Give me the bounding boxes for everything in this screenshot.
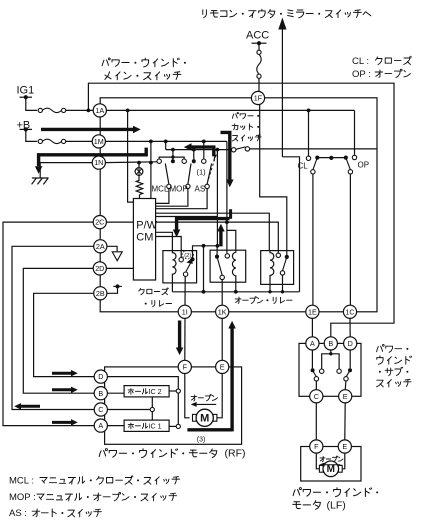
flow arrow 1K up from motor	[230, 329, 233, 432]
switch AS lever	[207, 164, 212, 185]
2B terminal node	[113, 285, 122, 287]
wire 1M internal bus	[105, 140, 227, 142]
label power cut switch (3 lines)	[232, 114, 233, 118]
svg-text:IC 2: IC 2	[149, 387, 162, 396]
wire CM to close relay contact	[156, 237, 182, 258]
pin D motor RF	[94, 370, 107, 383]
pin 1C	[343, 305, 356, 318]
AS mechanical link (1) dashed	[209, 153, 217, 180]
pin A motor RF	[94, 419, 107, 432]
junction 1M to AS contact	[202, 140, 206, 144]
svg-text:F: F	[183, 363, 188, 372]
junction to CL contact	[307, 109, 311, 113]
branch to relay2 coil	[227, 230, 236, 250]
svg-text:1M: 1M	[94, 137, 104, 146]
svg-text:E: E	[220, 363, 225, 372]
svg-text:A: A	[98, 421, 103, 430]
power cut switch lever	[236, 147, 246, 149]
svg-text:2C: 2C	[95, 218, 104, 227]
label open (LF motor)	[320, 457, 325, 459]
wire sub D to contact	[349, 350, 351, 368]
wire OP selector to 1C	[349, 174, 351, 305]
wire resistor to CM	[139, 195, 141, 199]
close relay coil	[172, 251, 176, 277]
wire fuse to 1M	[66, 140, 93, 142]
label power window motor LF line2	[294, 501, 300, 503]
relay2 fixed contact	[225, 254, 229, 258]
wire to illumination lamp	[138, 163, 140, 168]
flow arrow D row	[52, 372, 71, 375]
wire sub A to contact	[311, 350, 313, 368]
hall IC 2 box	[124, 386, 169, 397]
relay2 coil	[232, 250, 235, 278]
switch MCL common	[167, 184, 171, 188]
flow arrow C row (left)	[21, 405, 40, 408]
close relay common contact	[183, 272, 187, 276]
wire sub C to motor F	[315, 403, 317, 440]
motor LF	[319, 465, 323, 472]
switch MOP lever	[188, 164, 191, 185]
pin 1E	[306, 305, 319, 318]
sub B contacts	[320, 369, 324, 373]
wire CM to relay junction	[156, 216, 218, 218]
svg-text:1A: 1A	[95, 106, 104, 115]
label: power window main switch	[102, 60, 104, 66]
wire around box: IG1 to sub switch B	[88, 83, 394, 337]
junction 1A to CM	[126, 109, 130, 113]
svg-text:B: B	[98, 389, 103, 398]
page connector open arrow	[112, 252, 122, 261]
wire 1N to ground	[40, 163, 92, 178]
MOP moving contact tip	[192, 159, 196, 163]
close relay fixed contact	[179, 258, 183, 262]
pin C sub	[310, 390, 323, 403]
wire MOP common to CM	[156, 189, 188, 207]
wire 2C to motor C	[3, 222, 94, 426]
motor RF	[193, 414, 197, 421]
open relay box	[261, 251, 294, 285]
svg-text:CL :: CL :	[352, 56, 369, 67]
junction relay drive 2	[216, 244, 220, 248]
relay2 lever	[217, 257, 222, 276]
flow arrow 1I down to motor	[178, 321, 181, 348]
wire relay2 contact feed	[216, 246, 218, 257]
svg-text:C: C	[314, 392, 319, 401]
relay2 coil to bus	[235, 278, 237, 292]
sub switch left lever	[313, 371, 317, 377]
P/W CM control module box	[133, 199, 155, 281]
selector lower contact CL	[311, 170, 315, 174]
svg-text:ACC: ACC	[246, 30, 269, 42]
wire 1A-junction down to CM	[128, 110, 134, 202]
junction bus to relay feed	[216, 148, 220, 152]
pin 1I	[178, 305, 191, 318]
wire 1E to sub A	[311, 318, 313, 337]
IG1 terminal node	[20, 96, 33, 98]
svg-text:C: C	[98, 405, 103, 414]
flow arrow up from relay wire	[219, 232, 222, 247]
sub switch right common	[344, 377, 348, 381]
wire 2C to CM	[106, 221, 133, 223]
junction node IG1 branch	[87, 109, 91, 113]
pin A sub	[306, 337, 319, 350]
svg-text:(LF): (LF)	[327, 499, 346, 511]
power window motor LF box	[301, 447, 361, 482]
flow arrow left from cut switch	[192, 147, 214, 156]
fuse F-IG1	[38, 108, 42, 112]
wire mirror feed to relay bus	[282, 157, 299, 292]
svg-text:2A: 2A	[96, 242, 105, 251]
AS fixed contact	[202, 159, 206, 163]
svg-text:P/W: P/W	[136, 220, 157, 232]
wire close relay contact feed	[193, 246, 218, 260]
junction on 1N line	[149, 161, 153, 165]
pin 1F	[251, 91, 264, 104]
open relay fixed contact	[276, 253, 280, 257]
svg-text:B: B	[328, 339, 333, 348]
wire 1F to open relay	[260, 105, 287, 255]
svg-text:1I: 1I	[182, 307, 188, 316]
wire CM to close relay coil	[156, 232, 173, 250]
flow arrow B row	[52, 388, 71, 391]
label open relay	[235, 298, 241, 300]
MCL moving contact tip	[171, 159, 175, 163]
pin E sub	[339, 390, 352, 403]
svg-text:D: D	[98, 372, 103, 381]
wire power cut to right edge	[250, 148, 378, 150]
label close relay	[139, 288, 141, 291]
svg-text:AS :: AS :	[9, 508, 27, 519]
CL selector contact	[306, 156, 310, 160]
wire CM to open relay coil	[156, 213, 270, 250]
label open (RF motor)	[191, 396, 197, 398]
wire relay2 common to 1K	[221, 280, 223, 306]
switch MOP common	[186, 184, 190, 188]
wire CM to open relay contact	[156, 221, 227, 223]
svg-text:MCL: MCL	[152, 185, 169, 194]
junction relay contact feed	[225, 220, 229, 224]
wire 1N internal	[105, 161, 157, 164]
svg-text:F: F	[314, 442, 319, 451]
pin C motor RF	[94, 403, 107, 416]
wire common to E	[344, 381, 347, 390]
pin F motor RF	[178, 360, 191, 373]
ground symbol	[32, 177, 49, 179]
open relay coil to bus	[269, 278, 271, 292]
wire junction down to bus	[203, 246, 205, 292]
svg-text:1C: 1C	[345, 307, 354, 316]
svg-text:MOP: MOP	[170, 185, 188, 194]
contact bus wire	[166, 149, 232, 151]
power cut switch right contact	[245, 147, 249, 151]
wire bus down to MOP moving contact	[193, 150, 195, 161]
svg-text:OP :: OP :	[352, 69, 371, 80]
close relay lever	[186, 259, 193, 272]
MOP fixed contact	[182, 159, 186, 163]
sub D contact	[348, 368, 352, 372]
pin 1K	[216, 305, 229, 318]
junction relay drive	[202, 244, 206, 248]
power window sub switch box	[299, 343, 361, 396]
power cut switch left contact	[232, 148, 236, 152]
flow arrow to ground	[39, 148, 147, 167]
selector lever CL side	[313, 158, 317, 170]
wire 1A internal bus	[107, 109, 355, 111]
relay bus wire	[172, 291, 299, 293]
wire IG1 to fuse	[26, 97, 37, 110]
illumination lamp	[135, 168, 143, 176]
wire 1C to sub D	[349, 318, 351, 337]
label: to remote control outer mirror switch	[202, 10, 204, 15]
junction bus-MOP	[192, 148, 196, 152]
svg-text:(1): (1)	[197, 168, 207, 177]
pin E motor RF	[216, 360, 229, 373]
junction 1M to contact bus	[164, 140, 168, 144]
svg-text:E: E	[343, 392, 348, 401]
svg-text:(RF): (RF)	[225, 448, 246, 460]
pin 1N	[92, 156, 105, 169]
svg-text:MOP :: MOP :	[9, 492, 36, 503]
selector lever OP side	[346, 158, 351, 170]
selector lower contact OP	[348, 170, 352, 174]
pin B sub	[324, 337, 337, 350]
wire to OP contact	[354, 110, 356, 155]
open relay lever	[283, 257, 287, 271]
wire to CL contact	[308, 110, 310, 155]
pin E motor LF	[338, 440, 351, 453]
wire 2D to motor B	[23, 268, 94, 393]
svg-text:IC 1: IC 1	[149, 421, 162, 430]
pin B motor RF	[94, 387, 107, 400]
arrow open direction RF	[195, 403, 217, 405]
flow arrow down through cut switch	[221, 132, 230, 179]
svg-text:OP: OP	[358, 161, 370, 170]
wire sub E to motor E	[344, 403, 346, 440]
OP selector contact	[352, 155, 356, 159]
IC1 output junction	[176, 424, 180, 428]
wire sub B split	[330, 350, 332, 354]
pin F motor LF	[310, 440, 323, 453]
wire IC2 output	[169, 390, 176, 392]
flow arrow +B right	[41, 128, 133, 131]
wire 2A to page connector	[107, 246, 117, 251]
selector bar with pivots	[317, 157, 346, 159]
switch MCL lever	[165, 164, 169, 185]
label power window sub switch	[377, 347, 379, 352]
wire 2B to motor D	[34, 293, 95, 376]
hall IC 1 box	[124, 420, 169, 431]
wire +B to fuse	[26, 129, 37, 141]
wire 1M down to CM crossing 1N line	[150, 141, 152, 198]
junction 1M to CM feed	[149, 140, 153, 144]
wire fuse to 1A with junction	[66, 109, 94, 111]
+B terminal node	[20, 128, 33, 130]
wire 1K to E	[221, 318, 223, 360]
wire open relay common to bus	[282, 275, 284, 292]
svg-text:1N: 1N	[94, 158, 103, 167]
svg-text:CM: CM	[136, 232, 153, 244]
flow arrow into close relay	[229, 209, 232, 219]
pin 2C	[93, 216, 106, 229]
wire 1M corner down to close2 contact	[226, 141, 228, 253]
wire CL selector to 1E	[312, 174, 314, 305]
svg-text:(3): (3)	[197, 437, 206, 444]
wire 1M to AS contact	[203, 141, 205, 158]
svg-text:1E: 1E	[308, 307, 317, 316]
label power window motor RF	[99, 451, 101, 457]
wire IC1 output	[169, 425, 176, 427]
wire AS common to CM	[156, 189, 208, 209]
svg-text:IG1: IG1	[17, 85, 35, 97]
wire C to IC junction	[107, 409, 150, 411]
flow arrow A row	[52, 421, 71, 424]
bus junctions	[202, 290, 206, 294]
wire A to hall IC1	[107, 425, 124, 427]
close relay box	[163, 251, 197, 283]
annotation (2) dashed oval	[182, 250, 193, 258]
junction lamp feed	[137, 161, 141, 165]
svg-text:(2): (2)	[184, 253, 191, 259]
wire common to C	[315, 381, 317, 390]
wire 2B to terminal	[107, 288, 117, 293]
wire fuse to pin 1F	[258, 78, 260, 91]
sub A contact	[311, 368, 315, 372]
wire 1M to contact bus	[165, 141, 167, 149]
svg-text:M: M	[200, 412, 209, 424]
IC2 output junction	[176, 389, 180, 393]
wire bus down to MCL moving contact	[172, 150, 174, 161]
pin 1M	[92, 135, 105, 148]
relay box 2	[210, 250, 246, 282]
svg-text:M: M	[327, 464, 335, 475]
switch AS common	[205, 184, 209, 188]
sub switch left common	[314, 377, 318, 381]
wire E to motor	[217, 374, 222, 418]
fuse F-ACC (vertical)	[257, 50, 261, 54]
wire D to commutator sensor	[107, 377, 178, 425]
fuse F-+B	[38, 139, 42, 143]
MCL fixed contact	[157, 159, 161, 163]
wire IC2 to junction	[151, 397, 153, 408]
wire ACC to fuse	[258, 43, 260, 50]
open relay coil	[270, 251, 274, 278]
svg-text:AS: AS	[195, 185, 206, 194]
pin 2B	[94, 287, 107, 300]
svg-text:E: E	[342, 442, 347, 451]
svg-text:A: A	[310, 339, 315, 348]
arrow open direction LF	[323, 464, 341, 466]
svg-text:2B: 2B	[96, 289, 105, 298]
wire F to motor LF	[316, 453, 319, 469]
wire F to motor	[185, 374, 190, 418]
relay2 common contact	[220, 275, 224, 279]
power window main switch box outline	[100, 98, 377, 312]
wire 2A to motor A	[12, 246, 94, 409]
close relay moving contact	[190, 257, 194, 261]
junction bus-MCL	[171, 148, 175, 152]
pin 2A	[94, 240, 107, 253]
pin D sub	[344, 337, 357, 350]
wire to mirror switch with up arrow	[281, 29, 283, 157]
label power window motor LF line1	[293, 490, 295, 496]
pin 1A	[93, 104, 106, 117]
open relay moving contact	[285, 255, 289, 259]
wire close relay common to 1I	[184, 276, 186, 305]
open relay common contact	[280, 271, 284, 275]
svg-text:MCL :: MCL :	[9, 476, 34, 487]
IC common junction	[150, 407, 154, 411]
wire 2D to CM	[106, 267, 133, 269]
power window motor RF box	[105, 367, 242, 444]
svg-text:1K: 1K	[218, 307, 227, 316]
wire bus down to relay contact feed	[216, 150, 218, 246]
relay2 moving contact	[215, 255, 219, 259]
wire 1I to F	[184, 318, 186, 360]
pin 2D	[93, 262, 106, 275]
svg-text:1F: 1F	[254, 94, 263, 103]
wire to open relay fixed contact	[227, 222, 278, 253]
resistor R-lamp	[138, 175, 140, 180]
sub switch right lever	[346, 371, 350, 377]
wire E to motor LF	[342, 453, 344, 469]
ACC terminal node	[252, 42, 267, 44]
wire MCL common to CM	[156, 189, 169, 204]
bridge bus MCL-MOP fixed contacts	[159, 157, 184, 159]
wire B to hall IC2	[107, 392, 124, 394]
svg-text:2D: 2D	[95, 264, 104, 273]
close relay coil to bus	[171, 276, 173, 292]
svg-text:D: D	[348, 339, 353, 348]
wire junction to IC1	[151, 412, 153, 421]
